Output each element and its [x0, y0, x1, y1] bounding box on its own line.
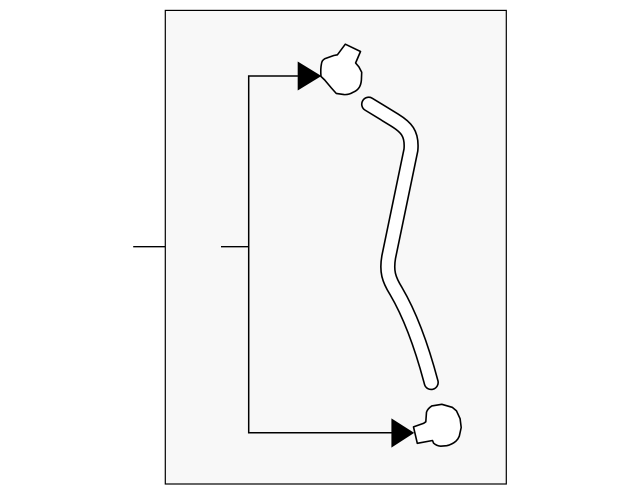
clamp top	[321, 44, 362, 94]
inner tick line	[221, 246, 249, 248]
bracket wire	[249, 76, 392, 433]
clamp bottom	[414, 404, 462, 446]
arrow bottom	[391, 418, 414, 447]
hose	[369, 104, 432, 382]
arrow top	[298, 62, 322, 91]
diagram frame box	[165, 10, 506, 484]
left tick line	[133, 246, 165, 248]
